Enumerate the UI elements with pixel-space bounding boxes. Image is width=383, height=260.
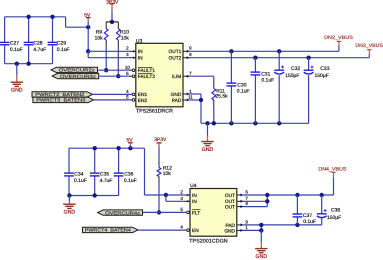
svg-text:DN3_VBUS: DN3_VBUS xyxy=(355,43,383,49)
svg-text:C33: C33 xyxy=(320,66,329,72)
svg-text:EN2: EN2 xyxy=(138,98,148,104)
svg-text:TPS2561DRCR: TPS2561DRCR xyxy=(136,108,173,114)
svg-text:GND: GND xyxy=(224,228,235,234)
svg-text:R10: R10 xyxy=(120,29,129,35)
svg-text:150µF: 150µF xyxy=(285,73,299,79)
svg-text:4.7uF: 4.7uF xyxy=(33,47,46,53)
svg-text:10k: 10k xyxy=(163,171,172,177)
svg-text:TPS2001CDGN: TPS2001CDGN xyxy=(189,239,228,245)
svg-text:150µF: 150µF xyxy=(315,73,329,79)
svg-text:GND: GND xyxy=(202,147,214,153)
svg-text:PWRCT3_BATEN3: PWRCT3_BATEN3 xyxy=(36,98,86,103)
svg-text:OVERCUR4z: OVERCUR4z xyxy=(105,210,141,215)
svg-text:DN4_VBUS: DN4_VBUS xyxy=(318,166,347,172)
svg-text:C36: C36 xyxy=(124,171,133,177)
svg-text:PAD: PAD xyxy=(172,98,182,104)
svg-text:GND: GND xyxy=(256,254,268,260)
svg-text:25.5k: 25.5k xyxy=(215,94,228,100)
svg-text:GND: GND xyxy=(11,88,23,94)
svg-text:10k: 10k xyxy=(121,36,130,42)
svg-text:5V: 5V xyxy=(84,12,91,18)
svg-text:C38: C38 xyxy=(331,208,340,214)
svg-text:EN1: EN1 xyxy=(138,92,148,98)
svg-text:EN: EN xyxy=(192,228,199,234)
svg-text:OUT2: OUT2 xyxy=(169,56,182,62)
svg-text:IN: IN xyxy=(192,199,197,205)
svg-text:FLT: FLT xyxy=(192,210,200,216)
svg-text:0.1uF: 0.1uF xyxy=(124,178,137,184)
svg-text:0.1uF: 0.1uF xyxy=(74,178,87,184)
svg-text:0.1uF: 0.1uF xyxy=(261,77,274,83)
svg-text:IN: IN xyxy=(138,56,143,62)
svg-text:3P3V: 3P3V xyxy=(154,137,167,143)
svg-text:C28: C28 xyxy=(33,41,42,47)
svg-text:DN2_VBUS: DN2_VBUS xyxy=(324,35,354,41)
svg-text:10k: 10k xyxy=(95,36,104,42)
svg-text:11: 11 xyxy=(188,94,193,99)
svg-text:U4: U4 xyxy=(190,183,197,189)
svg-text:C32: C32 xyxy=(291,66,300,72)
svg-text:C30: C30 xyxy=(237,83,246,89)
svg-text:PWRCT2_BATEN2: PWRCT2_BATEN2 xyxy=(35,92,85,97)
svg-text:0.1uF: 0.1uF xyxy=(10,47,23,53)
svg-text:5V: 5V xyxy=(127,137,134,143)
svg-text:OVERCUR2z: OVERCUR2z xyxy=(59,68,96,73)
svg-text:OUT: OUT xyxy=(225,205,235,211)
svg-text:U3: U3 xyxy=(136,38,143,44)
svg-text:4.7uF: 4.7uF xyxy=(100,178,113,184)
svg-text:OUT: OUT xyxy=(225,199,235,205)
svg-text:C34: C34 xyxy=(74,171,83,177)
svg-text:OVERCUR3z: OVERCUR3z xyxy=(60,74,97,79)
svg-text:GND: GND xyxy=(171,92,182,98)
svg-text:0.1uF: 0.1uF xyxy=(237,89,250,95)
svg-text:IN: IN xyxy=(138,49,143,55)
svg-text:IN: IN xyxy=(192,193,197,199)
svg-text:PWRCT4_BATEN4: PWRCT4_BATEN4 xyxy=(85,228,132,233)
svg-text:0.1uF: 0.1uF xyxy=(303,219,316,225)
svg-text:C35: C35 xyxy=(100,171,109,177)
svg-text:C29: C29 xyxy=(57,41,66,47)
svg-text:10: 10 xyxy=(125,65,131,70)
svg-text:C27: C27 xyxy=(10,41,19,47)
svg-text:PAD: PAD xyxy=(225,223,235,229)
svg-text:150µF: 150µF xyxy=(327,215,341,221)
svg-text:OUT1: OUT1 xyxy=(169,49,182,55)
svg-text:OUT: OUT xyxy=(225,193,235,199)
svg-text:FAULT2: FAULT2 xyxy=(138,74,156,80)
svg-text:R9: R9 xyxy=(96,29,103,35)
svg-text:GND: GND xyxy=(64,210,76,216)
svg-text:0.1uF: 0.1uF xyxy=(57,47,70,53)
svg-text:ILIM: ILIM xyxy=(172,74,181,80)
